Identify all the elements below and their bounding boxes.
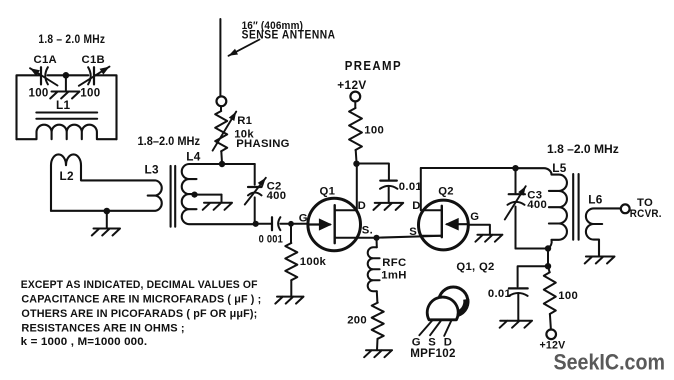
node: drain rail junction [353,161,359,167]
Q1 channel bar [334,205,336,243]
svg-text:0.01: 0.01 [488,288,511,300]
svg-text:0.01: 0.01 [399,181,422,193]
Q2 gate arrow [447,223,468,225]
svg-text:SENSE ANTENNA: SENSE ANTENNA [242,29,336,42]
svg-text:+12V: +12V [337,78,366,92]
svg-text:Q1: Q1 [320,185,336,197]
svg-text:G: G [470,211,479,223]
svg-text:Q1, Q2: Q1, Q2 [456,261,494,273]
svg-text:100: 100 [558,290,578,302]
inductor L6 [586,208,621,256]
svg-text:100: 100 [80,88,100,100]
potentiometer R1 10k PHASING [220,106,222,111]
svg-text:100: 100 [29,88,49,100]
ground (100k) [275,297,303,304]
svg-text:400: 400 [527,199,547,211]
inductor L4 with coil bumps [182,164,256,224]
svg-text:G: G [299,212,308,224]
ground (0.01 output cap) [517,294,519,321]
svg-text:1mH: 1mH [381,269,406,281]
transistor Q2 MPF102 (JFET) circle [419,200,469,250]
wire bottom of tank [516,248,549,250]
svg-text:R1: R1 [237,115,252,127]
Q2 channel bar [441,206,443,237]
node: L4 center tap [191,192,197,198]
antenna terminal circle [217,96,227,106]
+12V terminal (bottom) [546,330,556,340]
output terminal circle [621,204,630,213]
svg-text:400: 400 [267,190,287,202]
Q2 source lead [421,235,442,237]
MPF102 package dark crescent [454,299,469,318]
wire top junction down to C3 [515,168,517,192]
Q1 source lead and S rail to Q2 [335,236,442,238]
ground (Q2 gate) [475,235,502,242]
capacitor 0.01 (output decoupling) [509,287,528,289]
wire cap to Q1 gate [280,223,291,225]
resistor 100k (Q1 gate bias) [290,226,292,243]
node: tank center tap junction [63,72,70,79]
capacitor 0.01 (Q1 bypass) [380,180,397,182]
svg-text:PREAMP: PREAMP [345,58,402,73]
node: source rail junction [373,235,379,241]
+12V terminal (top) [350,92,360,102]
ground (L6) [585,257,615,264]
wire L4 tap to ground [195,194,222,196]
wire gate junction to Q1 [291,223,308,225]
node: decoupling junction [545,263,551,269]
wire Q2 gate to ground [468,225,490,235]
capacitor C1A (variable) [40,67,42,84]
node: output tank top junction [512,165,518,171]
svg-text:S: S [409,226,417,238]
pointer arrow to antenna [229,40,260,56]
tank loop box [17,75,117,139]
inductor L2 (loop antenna) and L3 winding [51,154,162,211]
wire Q2 drain to output tank top [421,167,516,169]
RFC 1mH choke [376,238,378,248]
svg-text:PHASING: PHASING [236,138,290,150]
wire drain rail to bypass cap [357,164,389,181]
MPF102 leads [419,320,451,336]
svg-text:200: 200 [347,314,367,326]
svg-text:L2: L2 [60,169,75,183]
wire C3 bottom down [515,207,517,249]
node: L2 ground junction [104,208,111,215]
L3-L4 transformer core [171,166,176,227]
resistor 100 (output supply) [548,266,549,272]
svg-text:RFC: RFC [382,257,406,269]
svg-text:RESISTANCES ARE IN OHMS ;: RESISTANCES ARE IN OHMS ; [21,322,184,334]
svg-text:100: 100 [364,124,384,136]
transistor Q1 MPF102 (JFET) circle [308,198,361,251]
svg-text:D: D [358,200,366,212]
inductor L1 (coil on bottom edge of box) [17,125,117,140]
ground (tank center tap) [50,75,79,98]
wire to coupling cap [256,223,272,225]
svg-text:CAPACITANCE ARE IN MICROFAR: CAPACITANCE ARE IN MICROFARADS ( μF ) ; [21,294,261,306]
resistor 200 (source) [372,303,384,339]
Q2 drain lead [421,168,442,210]
L5-L6 transformer core [573,174,578,240]
sense antenna wire [219,19,221,96]
ground (Q1 bypass cap) [388,187,390,203]
Q1 gate arrow [308,223,330,225]
svg-text:C1A: C1A [34,54,58,66]
svg-text:Q2: Q2 [438,185,454,197]
svg-text:L1: L1 [56,98,71,112]
svg-text:L6: L6 [588,192,603,206]
svg-text:1.8–2.0 MHz: 1.8–2.0 MHz [138,134,201,148]
wire junction to 0.01 cap [518,266,548,286]
svg-text:1.8 –2.0 MHz: 1.8 –2.0 MHz [547,142,619,156]
svg-text:SeekIC.com: SeekIC.com [554,349,666,374]
node: L4 bottom right corner [253,221,259,227]
svg-text:100k: 100k [300,256,327,268]
MPF102 package can (back body) [439,287,468,316]
svg-text:0 001: 0 001 [259,233,284,245]
svg-text:S.: S. [362,224,373,236]
inductor L5 [516,168,567,248]
svg-text:RCVR.: RCVR. [630,208,662,220]
svg-text:k = 1000 , M=1000 000.: k = 1000 , M=1000 000. [21,336,148,348]
capacitor 0.001 (coupling) [271,217,273,230]
node: tank bottom junction [545,245,551,251]
capacitor C2 400 (variable) [248,186,262,188]
capacitor C1B (variable) [88,67,91,84]
L1 core lines [36,113,97,119]
svg-text:MPF102: MPF102 [410,347,456,360]
svg-text:TO: TO [637,197,653,209]
node: R1 to L4 top junction [219,161,225,167]
MPF102 package front face [427,297,458,320]
capacitor C3 400 (variable) [509,193,525,195]
svg-text:C1B: C1B [82,54,106,66]
svg-text:L5: L5 [552,161,567,175]
svg-text:1.8 – 2.0 MHz: 1.8 – 2.0 MHz [38,32,105,46]
node: Q1 gate junction [288,221,294,227]
ground (200 resistor) [364,350,392,357]
ground (L2 bottom) [92,211,120,236]
svg-text:D: D [412,200,420,212]
svg-text:L3: L3 [145,162,160,176]
L4 loop right edge wires [254,164,256,224]
svg-text:OTHERS ARE IN PICOFARADS (: OTHERS ARE IN PICOFARADS ( pF OR μμF); [21,308,257,320]
resistor 100 (drain supply) [354,102,356,109]
wire tank bottom to +12V branch [547,249,549,267]
svg-text:EXCEPT AS INDICATED, DECIMAL: EXCEPT AS INDICATED, DECIMAL VALUES OF [21,279,258,291]
Q1 drain lead [335,164,357,211]
ground (L4 center tap) [203,195,232,210]
svg-text:L4: L4 [186,149,201,163]
